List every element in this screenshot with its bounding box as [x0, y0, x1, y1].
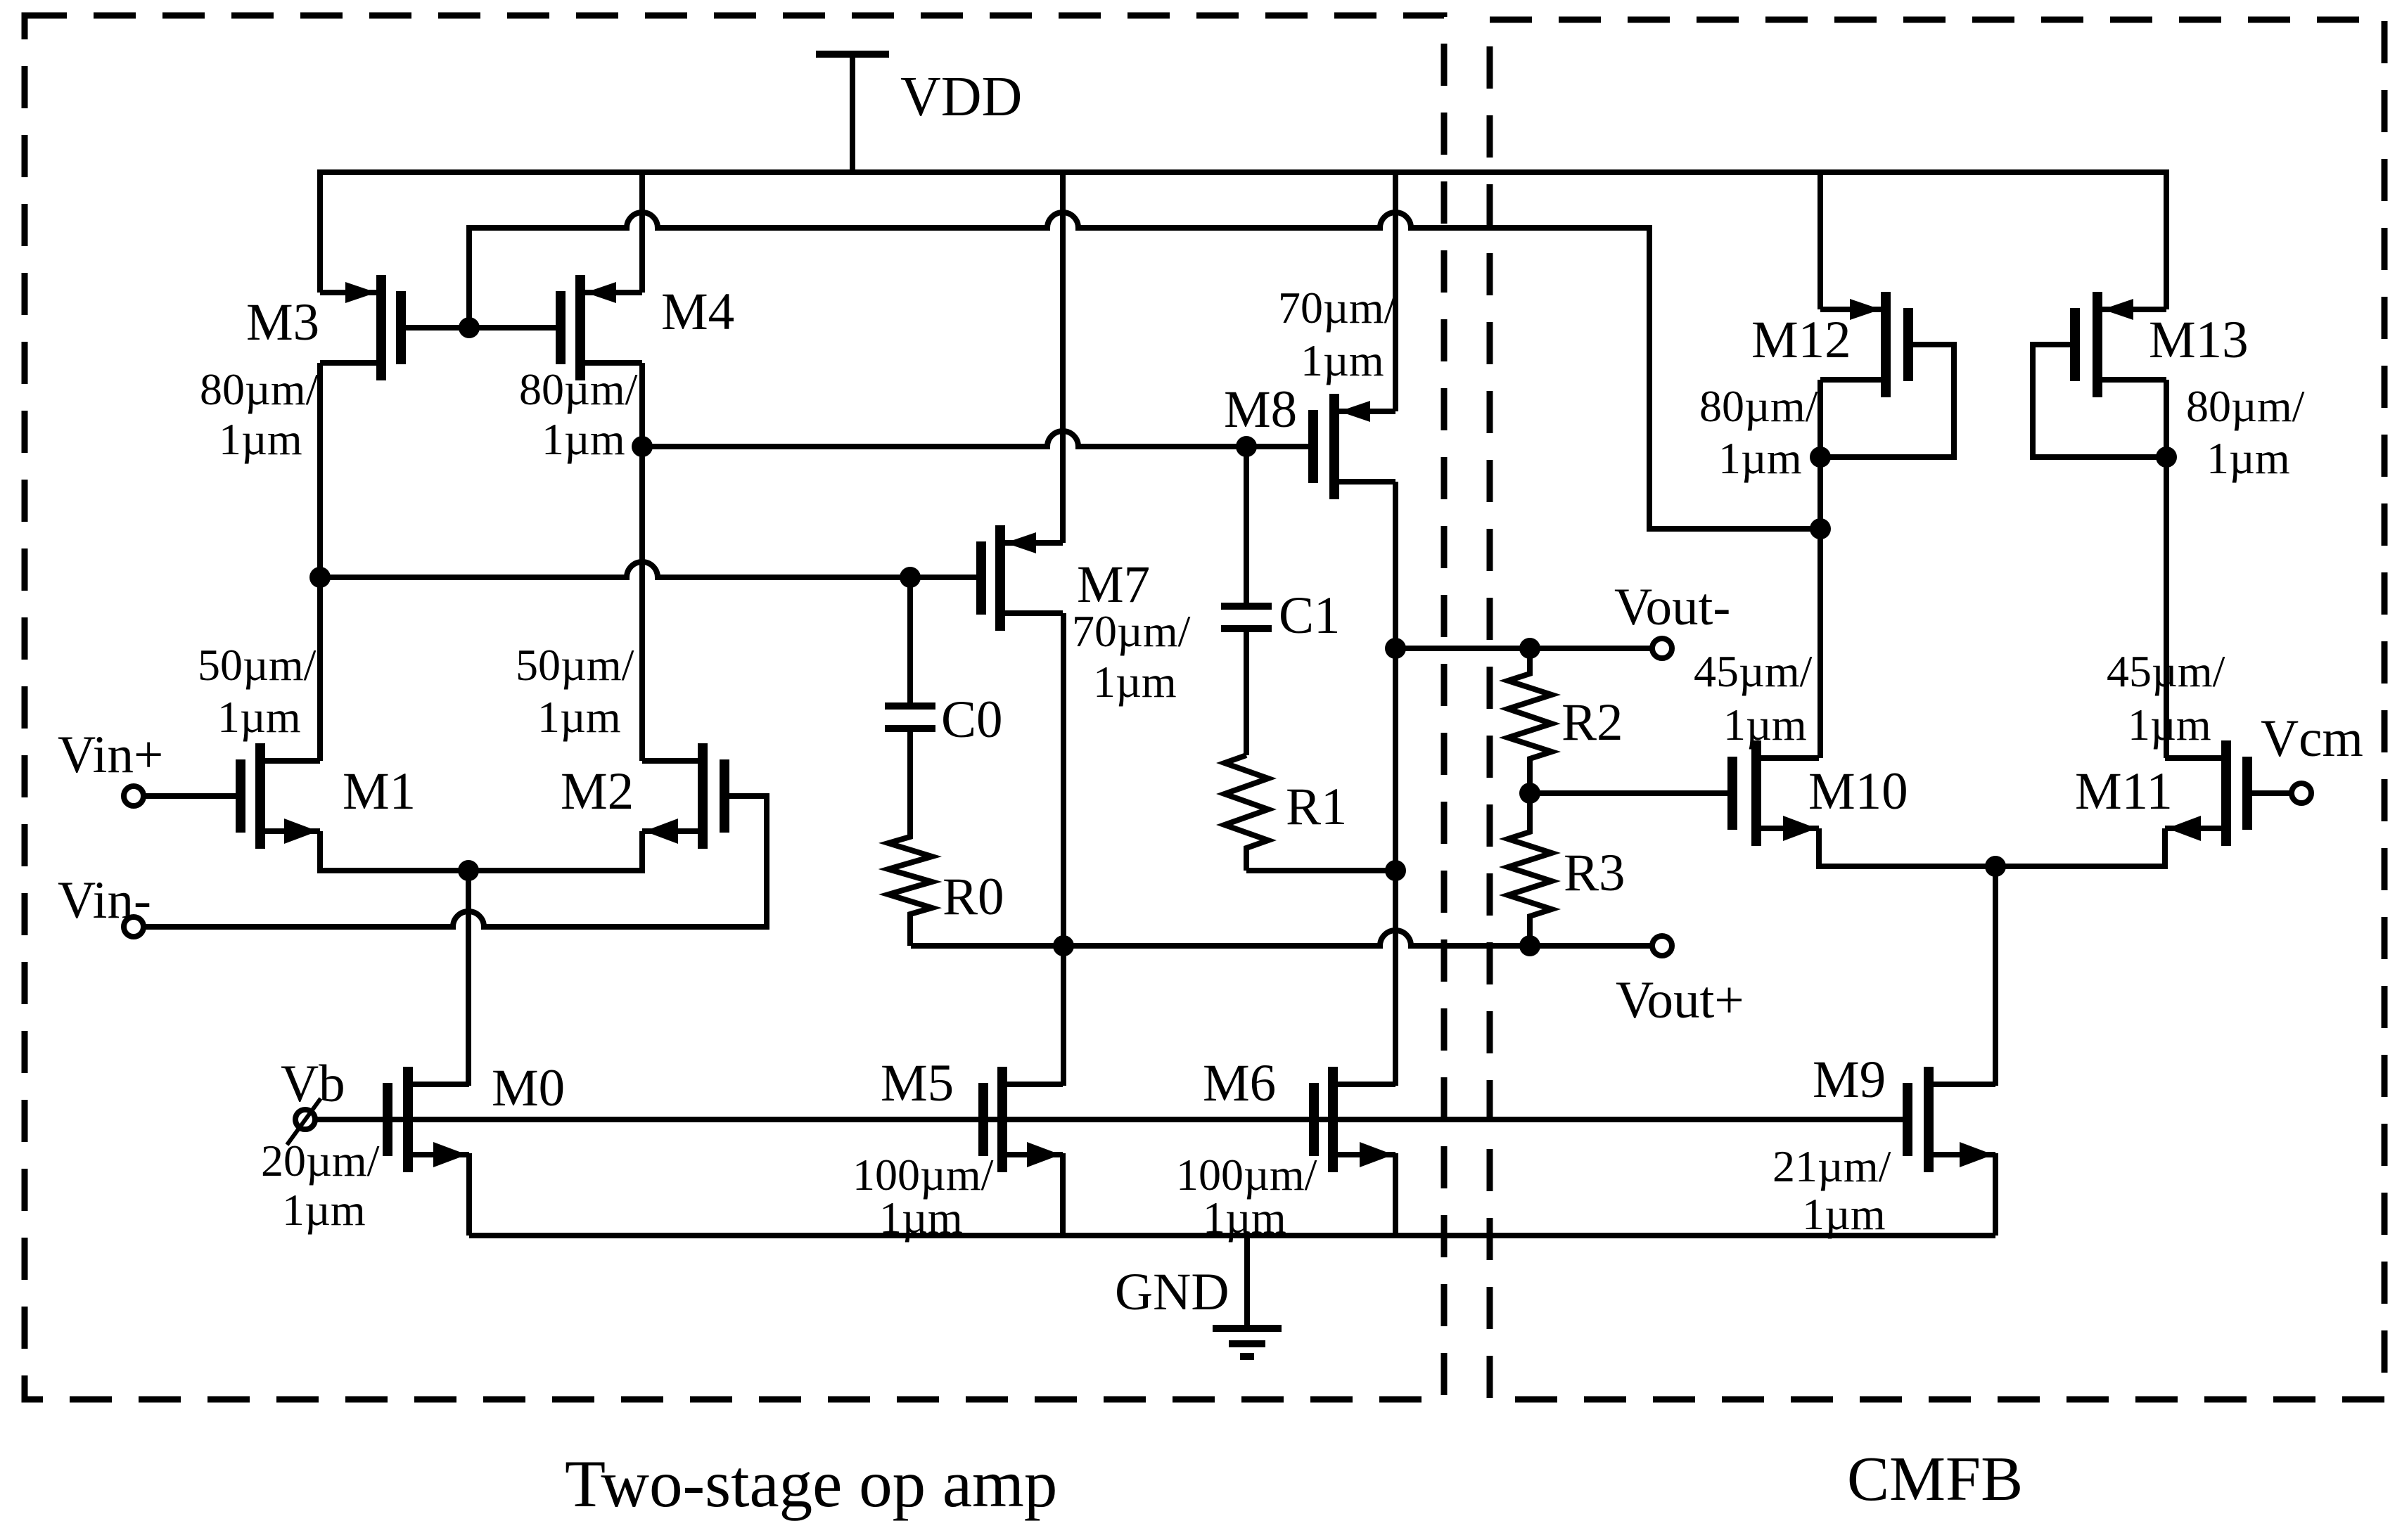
wire M1/M2 common source: [320, 831, 642, 871]
svg-text:70µm/: 70µm/: [1278, 283, 1397, 333]
resistor R0: [888, 729, 932, 946]
wire M8 gate line (node B): [642, 431, 1308, 447]
svg-text:M11: M11: [2075, 762, 2173, 821]
wire ground bus: [469, 1233, 1995, 1238]
wire M0 source to ground bus: [466, 1153, 472, 1236]
svg-text:Vout+: Vout+: [1616, 971, 1744, 1029]
wire M4 drain / M2 drain vertical: [639, 363, 645, 761]
svg-text:1µm: 1µm: [1718, 433, 1802, 483]
wire M5 source to ground bus: [1060, 1153, 1066, 1236]
svg-text:80µm/: 80µm/: [200, 364, 319, 414]
svg-text:45µm/: 45µm/: [2107, 646, 2225, 696]
svg-text:80µm/: 80µm/: [2186, 381, 2305, 431]
node R2 top on Vout- line: [1519, 638, 1540, 659]
svg-text:45µm/: 45µm/: [1694, 646, 1813, 696]
Vb port slash: [287, 1098, 321, 1145]
wire VDD rail: [320, 172, 2166, 309]
node tail junction: [458, 860, 479, 881]
transistor M6 (NMOS): [1314, 1067, 1395, 1172]
ground symbol: [1213, 1236, 1282, 1356]
svg-text:C1: C1: [1279, 586, 1341, 645]
wire M3-M4 gate link: [406, 325, 556, 331]
svg-text:R3: R3: [1564, 844, 1625, 902]
svg-text:50µm/: 50µm/: [516, 640, 634, 690]
svg-text:M7: M7: [1077, 556, 1150, 614]
svg-text:21µm/: 21µm/: [1772, 1141, 1891, 1191]
wire Vin- to M2 gate: [142, 796, 767, 927]
wire M7 gate line (node C): [320, 562, 976, 577]
wire M13 drain vertical: [2164, 380, 2169, 758]
node R1 bottom junction: [1385, 860, 1406, 881]
svg-text:Vcm: Vcm: [2261, 710, 2363, 768]
svg-text:CMFB: CMFB: [1847, 1444, 2023, 1514]
wire M12 gate-drain loop: [1830, 345, 1954, 457]
wire gate bus to CMFB (node A): [469, 212, 1820, 529]
transistor M10 (NMOS): [1732, 740, 1819, 846]
node CMFB tail junction: [1985, 856, 2006, 877]
node C0 tap on M7 gate line: [900, 567, 921, 588]
wire M8 source to VDD: [1393, 172, 1398, 411]
svg-text:R1: R1: [1286, 778, 1348, 836]
svg-text:M9: M9: [1813, 1051, 1886, 1109]
svg-text:1µm: 1µm: [1093, 657, 1177, 707]
dashed box: CMFB section: [1490, 20, 2384, 1399]
svg-text:1µm: 1µm: [1723, 700, 1807, 750]
svg-text:M12: M12: [1751, 311, 1851, 369]
transistor M7 (PMOS): [981, 525, 1063, 631]
Vin- port: [124, 917, 143, 937]
Vout- port: [1652, 639, 1672, 658]
wire M12 drain vertical: [1818, 380, 1823, 758]
svg-text:1µm: 1µm: [542, 414, 625, 464]
capacitor C1: [1221, 447, 1272, 755]
node M3 drain / M7 gate line: [309, 567, 331, 588]
wire M3 drain vertical: [317, 363, 323, 761]
svg-text:20µm/: 20µm/: [261, 1136, 380, 1186]
svg-text:GND: GND: [1115, 1263, 1229, 1321]
wire Vout- line: [1395, 646, 1654, 651]
Vb port: [295, 1110, 315, 1129]
svg-text:50µm/: 50µm/: [198, 640, 317, 690]
svg-text:VDD: VDD: [900, 66, 1022, 128]
wire M11 gate to Vcm: [2252, 790, 2294, 796]
svg-text:M2: M2: [561, 762, 634, 821]
capacitor C0: [885, 577, 935, 837]
svg-text:Two-stage op amp: Two-stage op amp: [565, 1446, 1057, 1521]
wire CMFB tail to M9 drain: [1993, 866, 1998, 1086]
Vcm port: [2292, 783, 2311, 803]
svg-text:M13: M13: [2149, 311, 2249, 369]
wire M7 source to VDD: [1060, 172, 1066, 543]
wire M13 gate-drain loop: [2033, 345, 2157, 457]
wire M10/M11 common source: [1819, 828, 2165, 866]
wire M8 drain / M6 drain vertical (Vout- node): [1393, 482, 1398, 1086]
svg-text:70µm/: 70µm/: [1072, 606, 1191, 656]
wire Vb bias line: [314, 1117, 1908, 1122]
resistor R3: [1508, 793, 1552, 946]
transistor M3 (PMOS): [320, 275, 401, 380]
resistor R2: [1508, 648, 1552, 793]
wire M6 source to ground bus: [1393, 1153, 1398, 1236]
node M7 drain / Vout+ / M5 drain: [1053, 935, 1074, 956]
svg-text:M10: M10: [1808, 762, 1908, 821]
svg-text:1µm: 1µm: [2206, 433, 2290, 483]
transistor M5 (NMOS): [983, 1067, 1063, 1172]
node M12 gate-drain junction: [1810, 447, 1831, 468]
node A to M12 drain junction: [1810, 518, 1831, 539]
resistor R1: [1225, 755, 1268, 871]
transistor M9 (NMOS): [1908, 1067, 1995, 1172]
transistor M13 (PMOS): [2075, 292, 2166, 397]
svg-text:Vout-: Vout-: [1614, 578, 1730, 636]
VDD supply symbol: [816, 54, 889, 172]
node R3 bottom on Vout+ line: [1519, 935, 1540, 956]
node R2/R3 mid junction: [1519, 783, 1540, 804]
svg-text:1µm: 1µm: [1301, 335, 1384, 385]
svg-text:Vin+: Vin+: [58, 726, 163, 784]
transistor M11 (NMOS): [2165, 740, 2247, 846]
transistor M0 (NMOS): [388, 1067, 469, 1172]
wire M12 source to VDD: [1818, 172, 1823, 309]
svg-text:M0: M0: [492, 1059, 565, 1117]
wire R1 bottom to Vout- vertical: [1246, 868, 1395, 873]
Vin+ port: [124, 786, 143, 806]
wire Vin+ to M1 gate: [142, 793, 236, 799]
Vout+ port: [1652, 936, 1672, 956]
svg-text:1µm: 1µm: [2128, 700, 2211, 750]
transistor M8 (PMOS): [1313, 394, 1395, 499]
svg-text:M3: M3: [246, 293, 319, 352]
wire tail to M0 drain: [466, 871, 471, 1086]
svg-text:M4: M4: [661, 283, 734, 341]
svg-text:1µm: 1µm: [1802, 1189, 1886, 1239]
wire R2/R3 mid to M10 gate: [1530, 790, 1727, 796]
svg-text:1µm: 1µm: [217, 692, 301, 742]
transistor M12 (PMOS): [1820, 292, 1908, 397]
node C1 tap on M8 gate line: [1236, 436, 1257, 457]
svg-text:1µm: 1µm: [282, 1185, 366, 1235]
node M4 drain / M8 gate line: [632, 436, 653, 457]
wire M7 drain / M5 drain vertical (Vout+ node): [1061, 613, 1066, 1086]
svg-text:1µm: 1µm: [219, 414, 302, 464]
svg-text:C0: C0: [941, 691, 1003, 749]
transistor M4 (PMOS): [561, 275, 642, 380]
svg-text:Vin-: Vin-: [58, 871, 151, 930]
svg-text:M6: M6: [1203, 1054, 1276, 1112]
svg-text:M1: M1: [343, 762, 416, 821]
svg-text:M8: M8: [1224, 380, 1297, 439]
svg-text:R0: R0: [943, 868, 1004, 926]
wire M4 source to VDD: [639, 172, 645, 293]
svg-text:80µm/: 80µm/: [519, 364, 638, 414]
wire Vout+ line: [911, 930, 1654, 946]
node M13 gate-drain junction: [2156, 447, 2177, 468]
transistor M1 (NMOS): [241, 743, 320, 849]
svg-text:80µm/: 80µm/: [1699, 381, 1818, 431]
wire M9 source to ground bus: [1993, 1153, 1998, 1236]
svg-text:1µm: 1µm: [537, 692, 621, 742]
svg-text:M5: M5: [881, 1054, 954, 1112]
dashed box: Two-stage op amp section: [25, 15, 1444, 1399]
node M3/M4 gate junction: [459, 317, 480, 338]
svg-text:Vb: Vb: [281, 1055, 345, 1113]
svg-text:R2: R2: [1561, 693, 1623, 752]
node M8 drain / Vout-: [1385, 638, 1406, 659]
transistor M2 (NMOS): [642, 743, 724, 849]
